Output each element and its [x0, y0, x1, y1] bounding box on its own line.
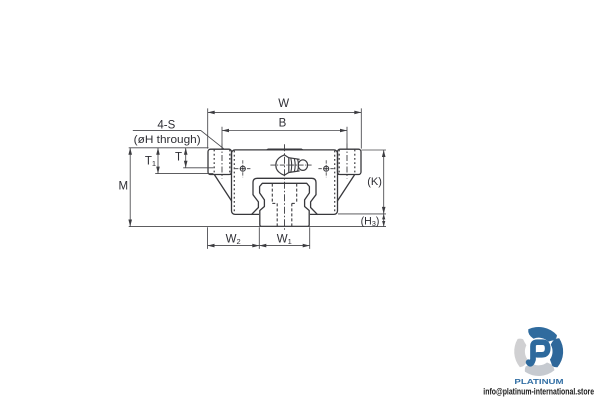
- W1 arrows: [259, 244, 266, 248]
- T1 extension bottom: [155, 173, 213, 175]
- logo petals: [514, 327, 563, 376]
- W2 W1 extension lines: [208, 227, 310, 249]
- K extension bottom: [338, 213, 386, 215]
- labels: [119, 98, 382, 246]
- bevel right: [337, 175, 354, 201]
- dimension W line: [208, 111, 362, 113]
- K extension top: [362, 149, 387, 151]
- logo petal right blue: [550, 338, 563, 367]
- svg-text:(H3): (H3): [361, 216, 380, 228]
- flange bottom hidden right: [338, 174, 345, 176]
- flange bottom hidden left: [225, 174, 232, 176]
- svg-text:(øH through): (øH through): [134, 134, 201, 146]
- svg-text:PLATINUM: PLATINUM: [514, 377, 563, 386]
- rail outline: [260, 183, 310, 226]
- dimension T1 line: [157, 148, 159, 174]
- svg-text:4-S: 4-S: [157, 119, 175, 131]
- dimension T line: [185, 148, 187, 168]
- svg-text:T1: T1: [145, 155, 156, 168]
- rail bolt shoulder hidden lines: [272, 202, 277, 204]
- svg-text:M: M: [119, 180, 129, 192]
- svg-text:B: B: [279, 118, 287, 130]
- grease nipple center line: [270, 164, 311, 166]
- svg-text:T: T: [175, 152, 182, 164]
- center lines: [222, 144, 347, 230]
- logo petal left gray: [514, 339, 527, 368]
- body hidden line right: [334, 151, 336, 214]
- W extension lines: [208, 108, 362, 148]
- flange right: [338, 149, 362, 174]
- screw hole left: [235, 160, 251, 177]
- H3 arrows: [382, 214, 385, 220]
- W arrows: [208, 111, 215, 115]
- T arrows: [184, 148, 188, 155]
- body top plateau: [267, 149, 304, 150]
- dimensions: [129, 108, 386, 249]
- svg-text:W2: W2: [226, 234, 241, 247]
- rail bolt shank hidden lines: [276, 203, 278, 226]
- bottom extension line: [129, 226, 386, 228]
- grease nipple: [276, 155, 308, 175]
- screw hole right: [318, 160, 334, 177]
- svg-text:(K): (K): [367, 176, 382, 188]
- svg-text:info@platinum-international.st: info@platinum-international.store: [483, 387, 594, 397]
- cavity outline: [252, 178, 318, 214]
- svg-text:W: W: [278, 98, 289, 110]
- flange hole center line right: [346, 144, 348, 179]
- dimension H3 line: [383, 214, 385, 227]
- block body: [232, 150, 338, 215]
- rail bolt head hole hidden lines: [271, 184, 273, 204]
- logo petal bottom gray: [525, 363, 555, 376]
- B arrows: [222, 129, 229, 133]
- bevel left: [215, 175, 232, 201]
- center line vertical: [284, 144, 286, 230]
- leader 4-S: [133, 130, 224, 149]
- body hidden line left: [233, 151, 235, 214]
- flange left: [208, 149, 232, 174]
- T extension bottom: [183, 167, 213, 169]
- hidden lines (dotted): [214, 150, 355, 214]
- K arrows: [382, 150, 386, 157]
- W2 arrows: [208, 244, 215, 248]
- dimension B line: [222, 130, 347, 132]
- logo letter P: [529, 342, 548, 364]
- svg-text:W1: W1: [277, 234, 292, 247]
- flange hole left hidden lines: [213, 150, 215, 175]
- T1 arrows: [156, 148, 160, 155]
- dimension M line: [129, 148, 131, 227]
- rail gap mask: [260, 213, 308, 216]
- B extension lines: [222, 127, 347, 144]
- dimension W2 W1 line: [208, 245, 310, 247]
- dimension K line: [383, 150, 385, 214]
- M arrows: [128, 148, 132, 155]
- flange hole center line left: [221, 144, 223, 179]
- M extension top: [129, 147, 209, 149]
- logo petal top blue: [528, 327, 557, 342]
- arrow heads: [128, 111, 385, 248]
- flange hole right hidden lines: [338, 150, 340, 175]
